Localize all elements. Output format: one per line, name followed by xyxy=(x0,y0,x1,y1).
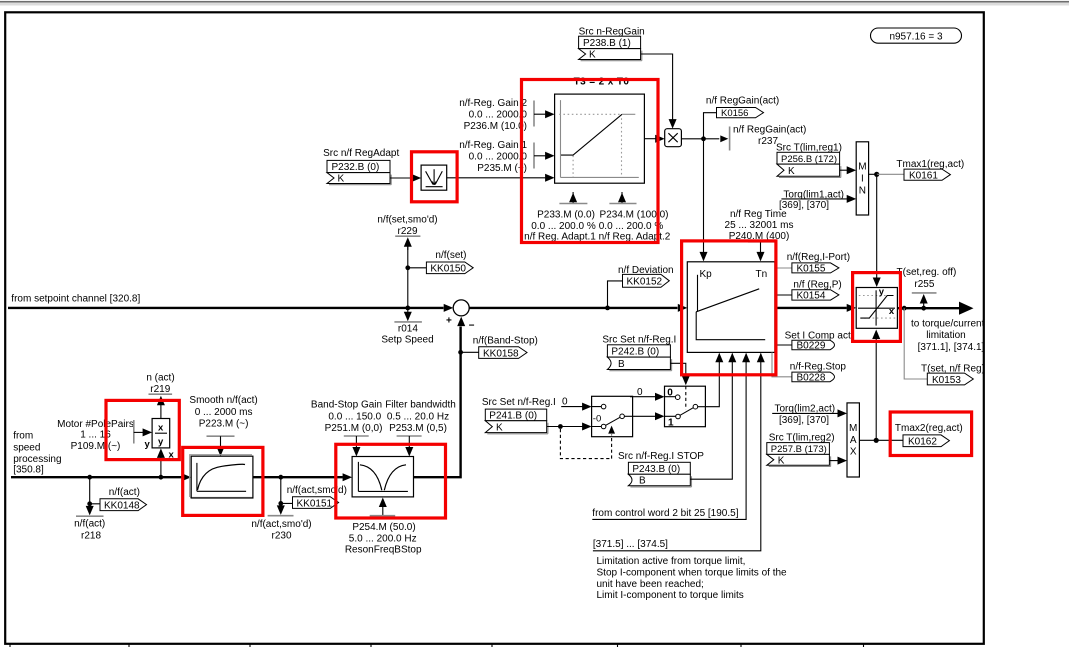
node: MIN output junction xyxy=(869,172,880,177)
svg-text:Tmax2(reg,act): Tmax2(reg,act) xyxy=(895,423,963,434)
connector B0229 Set I Comp act. xyxy=(775,330,854,351)
svg-text:Src Set n/f-Reg.I: Src Set n/f-Reg.I xyxy=(482,397,556,408)
svg-text:0.0 ... 150.0: 0.0 ... 150.0 xyxy=(328,411,381,422)
indicator r218 n/f(act) xyxy=(74,504,105,542)
svg-text:Filter bandwidth: Filter bandwidth xyxy=(385,400,456,411)
svg-text:Setp Speed: Setp Speed xyxy=(381,335,433,346)
svg-text:P109.M (~): P109.M (~) xyxy=(71,441,121,452)
parameter Smooth n/f(act) P223 xyxy=(189,395,257,456)
wire: P232 to downramp symbol xyxy=(390,174,421,182)
svg-text:processing: processing xyxy=(13,454,61,465)
wire: V symbol to adaptation block xyxy=(447,174,555,182)
wire: P241 to switch1 bottom xyxy=(547,423,592,431)
wire: P243 up to PI xyxy=(690,354,732,479)
svg-text:P254.M (50.0): P254.M (50.0) xyxy=(352,522,415,533)
svg-text:r219: r219 xyxy=(150,384,170,395)
control: dashed from P241 junction to S1 xyxy=(560,426,615,459)
svg-text:n/f RegGain(act): n/f RegGain(act) xyxy=(733,125,806,136)
wire: MIN junction down to limiter top xyxy=(873,174,881,287)
svg-text:P238.B (1): P238.B (1) xyxy=(583,38,631,49)
wire: band-stop output up to summing junction xyxy=(414,317,466,478)
svg-text:Src T(lim,reg2): Src T(lim,reg2) xyxy=(769,433,835,444)
svg-text:0.0 ... 2000.0: 0.0 ... 2000.0 xyxy=(469,152,528,163)
wire: limiter output to torque limitation xyxy=(897,302,973,315)
summing junction xyxy=(446,300,475,332)
wire: main path up into x/y xyxy=(157,448,165,477)
connector K0161 Tmax1(reg,act) xyxy=(877,159,964,182)
svg-text:X: X xyxy=(850,447,857,458)
page code bubble n957.16 = 3 xyxy=(871,28,962,43)
svg-text:n/f(set,smo'd): n/f(set,smo'd) xyxy=(377,214,437,225)
svg-text:0 ... 2000 ms: 0 ... 2000 ms xyxy=(195,407,253,418)
svg-text:P253.M (0,5): P253.M (0,5) xyxy=(389,423,447,434)
svg-text:n/f(act): n/f(act) xyxy=(109,487,140,498)
wire: adaptation output to multiplier xyxy=(644,135,664,143)
red highlight: band-stop xyxy=(336,444,446,518)
wire: multiplier junction down into PI controller xyxy=(700,139,708,262)
svg-text:from control word 2 bit 25 [19: from control word 2 bit 25 [190.5] xyxy=(592,508,738,519)
block: x/y divider xyxy=(145,419,175,461)
svg-text:KK0158: KK0158 xyxy=(483,348,519,359)
svg-text:y: y xyxy=(879,287,885,298)
svg-text:25 ... 32001 ms: 25 ... 32001 ms xyxy=(725,220,794,231)
svg-text:K0155: K0155 xyxy=(797,263,826,274)
red highlight: x/y divider xyxy=(106,400,179,459)
svg-text:0.0 ... 200.0 %: 0.0 ... 200.0 % xyxy=(599,221,664,232)
svg-text:Limitation active from torque: Limitation active from torque limit, xyxy=(597,556,746,567)
svg-text:Band-Stop Gain: Band-Stop Gain xyxy=(311,400,382,411)
svg-text:Stop I-component when torque l: Stop I-component when torque limits of t… xyxy=(597,568,788,579)
indicator r014 Setp Speed xyxy=(381,308,433,346)
red highlight: adaptation block xyxy=(522,80,659,243)
connector K0154 n/f (Reg,P) xyxy=(775,279,842,301)
svg-text:-0: -0 xyxy=(593,413,601,424)
wire: P256 to MIN xyxy=(840,166,857,174)
connector K0155 n/f(Reg,I-Port) xyxy=(775,252,850,274)
svg-text:r230: r230 xyxy=(271,531,291,542)
svg-text:0: 0 xyxy=(667,387,673,398)
svg-text:Smooth n/f(act): Smooth n/f(act) xyxy=(189,395,257,406)
wire: from control word 2 bit 25 xyxy=(592,354,746,520)
connector KK0150 n/f(set) xyxy=(408,250,473,275)
red highlight: smoothing xyxy=(183,447,263,515)
svg-text:KK0148: KK0148 xyxy=(104,501,140,512)
svg-text:0.5 ... 20.0 Hz: 0.5 ... 20.0 Hz xyxy=(387,411,449,422)
svg-text:to torque/current: to torque/current xyxy=(911,318,985,329)
svg-text:P243.B (0): P243.B (0) xyxy=(632,464,680,475)
svg-text:Motor #PolePairs: Motor #PolePairs xyxy=(57,419,134,430)
svg-text:r218: r218 xyxy=(81,530,101,541)
parameter Band-Stop Gain P251 xyxy=(311,400,382,457)
svg-text:P235.M (~): P235.M (~) xyxy=(477,163,527,174)
wire: constant 0 into switch1 top xyxy=(561,397,591,411)
svg-text:0: 0 xyxy=(637,387,643,398)
svg-text:KK0151: KK0151 xyxy=(297,498,333,509)
wire: S2 output up to PI xyxy=(705,354,719,407)
block: gain adaptation characteristic xyxy=(555,94,645,183)
svg-text:Src n-RegGain: Src n-RegGain xyxy=(579,26,645,37)
connector K0162 Tmax2(reg,act) xyxy=(859,423,962,447)
wire: Torq(lim2,act) into MAX xyxy=(772,403,847,426)
svg-text:Src n/f-Reg.I STOP: Src n/f-Reg.I STOP xyxy=(618,451,704,462)
svg-text:P257.B (173): P257.B (173) xyxy=(771,444,827,455)
svg-text:1: 1 xyxy=(668,417,674,428)
red highlight: PI controller xyxy=(682,241,776,375)
connector KK0158 n/f(Band-Stop) xyxy=(461,335,538,359)
svg-text:K0156: K0156 xyxy=(721,108,748,119)
parameter P254 ResonFreqBStop xyxy=(345,498,422,556)
svg-text:KK0150: KK0150 xyxy=(430,264,466,275)
svg-text:K0153: K0153 xyxy=(932,375,961,386)
svg-text:T(set,reg. off): T(set,reg. off) xyxy=(897,267,957,278)
node: setpoint vertical with r229 / KK0150 / r014 xyxy=(405,244,410,310)
svg-text:limitation: limitation xyxy=(926,330,965,341)
connector P238 Src n-RegGain xyxy=(579,26,645,60)
svg-text:P232.B (0): P232.B (0) xyxy=(332,162,380,173)
svg-text:5.0 ... 200.0 Hz: 5.0 ... 200.0 Hz xyxy=(349,534,417,545)
block: setpoint-adaption symbol (V) xyxy=(421,165,447,190)
svg-text:I: I xyxy=(861,174,864,185)
svg-text:y: y xyxy=(158,437,164,448)
svg-text:n/f(set): n/f(set) xyxy=(435,250,466,261)
svg-text:n/f(act): n/f(act) xyxy=(74,519,105,530)
svg-text:M: M xyxy=(849,423,857,434)
svg-text:K: K xyxy=(788,166,795,177)
terminal r237 n/f RegGain(act) xyxy=(704,125,807,151)
svg-text:[371.5] ... [374.5]: [371.5] ... [374.5] xyxy=(593,539,668,550)
svg-text:n/f(act,smo'd): n/f(act,smo'd) xyxy=(251,519,311,530)
connector KK0148 n/f(act) xyxy=(87,477,146,511)
svg-text:Tn: Tn xyxy=(756,269,768,280)
svg-text:P256.B (172): P256.B (172) xyxy=(781,154,837,165)
wire: P238 down to multiplier xyxy=(641,54,677,129)
svg-text:P241.B (0): P241.B (0) xyxy=(489,411,537,422)
svg-text:Tmax1(reg,act): Tmax1(reg,act) xyxy=(896,159,964,170)
connector P257 Src T(lim,reg2) xyxy=(767,433,835,467)
wire: MAX junction up to limiter bottom xyxy=(872,330,880,441)
wire: Torq(lim1,act) into MIN xyxy=(779,190,856,211)
svg-text:n/f-Reg.Stop: n/f-Reg.Stop xyxy=(790,361,847,372)
svg-text:P233.M (0.0): P233.M (0.0) xyxy=(537,210,595,221)
svg-text:B: B xyxy=(618,359,625,370)
svg-text:x: x xyxy=(889,306,895,317)
block MAX xyxy=(847,403,859,477)
multiplier X xyxy=(665,129,682,147)
svg-text:P251.M (0,0): P251.M (0,0) xyxy=(325,423,383,434)
svg-text:Limit I-component to torque li: Limit I-component to torque limits xyxy=(597,590,744,601)
svg-text:x: x xyxy=(158,423,164,434)
svg-text:Src Set n/f-Reg.I: Src Set n/f-Reg.I xyxy=(602,335,676,346)
parameter P233 n/f Reg. Adapt.1 (bottom arrow 1) xyxy=(524,192,596,243)
svg-text:r014: r014 xyxy=(398,324,418,335)
svg-text:K0161: K0161 xyxy=(909,170,938,181)
svg-text:y: y xyxy=(145,439,151,450)
svg-text:K: K xyxy=(778,455,785,466)
svg-text:Src T(lim,reg1): Src T(lim,reg1) xyxy=(776,142,842,153)
svg-text:r255: r255 xyxy=(914,279,934,290)
svg-text:n/f(act,smo'd): n/f(act,smo'd) xyxy=(287,485,347,496)
svg-text:Src n/f RegAdapt: Src n/f RegAdapt xyxy=(323,148,399,159)
wire: main setpoint path from frame to summing point xyxy=(8,294,453,312)
connector B0228 n/f-Reg.Stop xyxy=(772,352,846,383)
wire: lower actual-value path xyxy=(11,473,191,481)
wire: P257 to MAX xyxy=(829,457,847,465)
parameter Motor #PolePairs P109 xyxy=(57,419,152,452)
svg-text:n/f(Reg,I-Port): n/f(Reg,I-Port) xyxy=(787,252,850,263)
svg-text:n/f(Band-Stop): n/f(Band-Stop) xyxy=(473,335,538,346)
svg-text:KK0152: KK0152 xyxy=(627,277,663,288)
parameter n/f-Reg. Gain 1 / P235 xyxy=(459,140,554,174)
svg-text:n/f RegGain(act): n/f RegGain(act) xyxy=(706,95,779,106)
note: limitation text block xyxy=(597,556,788,601)
wire: summing point to PI controller xyxy=(469,304,687,312)
svg-text:M: M xyxy=(858,162,866,173)
connector KK0152 n/f Deviation xyxy=(608,265,674,308)
svg-text:0.0 ... 2000.0: 0.0 ... 2000.0 xyxy=(469,110,528,121)
wire: PI output to limiter xyxy=(775,304,856,312)
svg-text:K: K xyxy=(496,423,503,434)
parameter n/f-Reg. Gain 2 / P236 xyxy=(459,98,554,132)
indicator r219 n (act) xyxy=(146,373,174,419)
svg-text:n/f-Reg. Gain 1: n/f-Reg. Gain 1 xyxy=(459,140,527,151)
connector P256 Src T(lim,reg1) xyxy=(776,142,842,177)
svg-text:N: N xyxy=(859,186,866,197)
indicator r230 n/f(act,smo'd) xyxy=(251,503,311,541)
block: smoothing PT1 xyxy=(190,455,253,498)
connector K0153 T(set, n/f Reg) xyxy=(904,308,985,386)
parameter Filter bandwidth P253 xyxy=(385,400,456,457)
red highlight: V symbol xyxy=(412,152,458,202)
svg-text:ResonFreqBStop: ResonFreqBStop xyxy=(345,545,422,556)
svg-text:from setpoint channel [320.8]: from setpoint channel [320.8] xyxy=(11,294,140,305)
svg-text:n (act): n (act) xyxy=(146,373,174,384)
svg-text:P223.M (~): P223.M (~) xyxy=(199,419,249,430)
connector P241 Src Set n/f-Reg.I xyxy=(482,397,556,434)
svg-text:from: from xyxy=(13,431,33,442)
wire: multiplier output junction xyxy=(681,136,705,141)
svg-text:K: K xyxy=(589,50,596,61)
svg-text:P242.B (0): P242.B (0) xyxy=(611,347,659,358)
svg-text:+: + xyxy=(446,316,452,327)
connector P242 Src Set n/f-Reg.I (binector) xyxy=(602,335,676,371)
svg-text:K0154: K0154 xyxy=(797,290,826,301)
wire: constant 0 into switch2 top xyxy=(630,387,665,401)
svg-text:−: − xyxy=(469,321,475,332)
svg-text:0: 0 xyxy=(562,397,568,408)
window top edge band xyxy=(0,0,1069,1)
svg-text:n957.16 = 3: n957.16 = 3 xyxy=(889,32,943,43)
indicator r229 n/f(set,smo'd) xyxy=(377,214,437,250)
block MIN xyxy=(856,142,868,215)
svg-text:[350.8]: [350.8] xyxy=(13,464,44,475)
svg-text:n/f-Reg. Gain 2: n/f-Reg. Gain 2 xyxy=(459,98,527,109)
indicator r255 T(set,reg. off) xyxy=(897,267,957,308)
footer column ticks xyxy=(10,644,864,647)
block: PI controller Kp Tn xyxy=(687,262,775,353)
control: P242 to S2 dashed xyxy=(670,363,689,409)
svg-text:P236.M (10.0): P236.M (10.0) xyxy=(464,121,527,132)
svg-text:B0229: B0229 xyxy=(797,341,826,352)
parameter P234 n/f Reg. Adapt.2 (bottom arrow 2) xyxy=(599,192,671,243)
svg-text:n/f Reg Time: n/f Reg Time xyxy=(730,209,787,220)
label: to torque/current limitation xyxy=(911,318,985,353)
block: limiter (saturation) xyxy=(856,287,897,329)
svg-text:Torq(lim2,act): Torq(lim2,act) xyxy=(775,403,836,414)
block: band-stop filter xyxy=(352,457,413,497)
svg-text:speed: speed xyxy=(13,442,40,453)
svg-text:[371.1], [374.1]: [371.1], [374.1] xyxy=(918,342,985,353)
svg-text:r229: r229 xyxy=(397,226,417,237)
svg-text:0.0 ... 200.0 %: 0.0 ... 200.0 % xyxy=(531,221,596,232)
svg-text:K: K xyxy=(338,174,345,185)
red highlight: Tmax2/K0162 xyxy=(890,412,971,456)
connector P243 Src n/f-Reg.I STOP (binector) xyxy=(618,451,704,487)
switch S2 (I-stop) xyxy=(665,386,706,428)
wire: S1 to S2 xyxy=(633,412,665,420)
wire: smoothing to band-stop xyxy=(253,473,352,481)
parameter n/f Reg Time P240 xyxy=(725,209,794,261)
svg-text:B0228: B0228 xyxy=(797,373,826,384)
svg-text:n/f (Reg,P): n/f (Reg,P) xyxy=(793,279,841,290)
svg-text:A: A xyxy=(850,435,857,446)
svg-text:unit have been reached;: unit have been reached; xyxy=(597,579,704,590)
connector KK0151 n/f(act,smo'd) xyxy=(278,477,347,509)
switch S1 (set I) xyxy=(592,396,633,436)
wire: [371.5] ... [374.5] xyxy=(593,354,761,551)
label: from speed processing [350.8] xyxy=(13,431,61,476)
svg-text:[369], [370]: [369], [370] xyxy=(779,415,829,426)
svg-text:Kp: Kp xyxy=(700,269,713,280)
svg-text:K0162: K0162 xyxy=(908,436,937,447)
red highlight: limiter xyxy=(853,273,901,342)
connector P232 Src n/f RegAdapt xyxy=(323,148,399,185)
svg-text:B: B xyxy=(639,476,646,487)
connector K0156 n/f RegGain(act) xyxy=(704,95,780,139)
wires: four lines up into PI bottom xyxy=(715,353,765,363)
